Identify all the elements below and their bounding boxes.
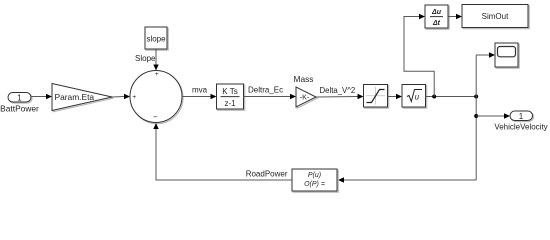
wire gain Mass to saturation, node Delta_V^2 (316, 94, 364, 99)
wire slope to sum top (153, 50, 158, 71)
wire sqrt to trunk (426, 96, 477, 98)
svg-text:-K-: -K- (300, 93, 310, 102)
svg-text:Δt: Δt (432, 20, 441, 27)
polynomial block P(u) (292, 169, 338, 192)
wire polynomial to sum bottom (153, 123, 292, 180)
wire trunk to scope (476, 52, 495, 57)
wire branch up to derivative (404, 14, 434, 97)
to-workspace SimOut (462, 5, 529, 29)
svg-text:u: u (415, 93, 420, 102)
svg-text:VehicleVelocity: VehicleVelocity (494, 123, 547, 132)
wire integrator to gain Mass, node Deltra_Ec (244, 94, 297, 99)
junction dot B (trunk / main wire) (474, 95, 478, 99)
svg-text:P(u): P(u) (308, 172, 321, 179)
svg-text:1: 1 (519, 112, 524, 121)
wire trunk vertical (475, 55, 477, 180)
svg-text:Δu: Δu (431, 9, 442, 16)
svg-text:+: + (132, 94, 136, 101)
discrete integrator K Ts / z-1 (217, 84, 245, 110)
sqrt block (402, 85, 427, 109)
junction dot C (outport branch) (474, 114, 478, 118)
svg-text:−: − (153, 113, 158, 122)
gain Mass -K- (296, 87, 317, 108)
wire trunk to outport (476, 113, 510, 118)
junction dot A (sqrt output branch) (432, 95, 436, 99)
svg-text:mva: mva (192, 86, 208, 95)
svg-text:Mass: Mass (293, 74, 313, 84)
wire derivative to SimOut (449, 14, 463, 19)
svg-text:SimOut: SimOut (482, 12, 509, 21)
wire saturation to sqrt (388, 94, 403, 99)
svg-text:+: + (155, 71, 159, 78)
svg-text:1: 1 (17, 93, 22, 102)
svg-text:Param.Eta: Param.Eta (55, 92, 95, 102)
svg-text:K Ts: K Ts (222, 87, 237, 96)
svg-text:Delta_V^2: Delta_V^2 (320, 86, 356, 95)
sum junction S1 (130, 71, 183, 124)
outport 1 VehicleVelocity (510, 111, 534, 122)
svg-text:Deltra_Ec: Deltra_Ec (248, 86, 283, 95)
constant slope (145, 27, 168, 50)
svg-text:z-1: z-1 (224, 99, 236, 108)
svg-text:O(P) =: O(P) = (304, 181, 325, 188)
wire gain to sum (112, 94, 130, 99)
svg-text:Slope: Slope (135, 54, 156, 63)
gain Param.Eta (52, 84, 113, 112)
wire trunk to polynomial (feedback) (338, 177, 476, 182)
svg-text:BattPower: BattPower (0, 104, 39, 114)
wire sum to integrator, node mva (182, 94, 217, 99)
scope block (495, 43, 519, 68)
svg-text:RoadPower: RoadPower (246, 170, 288, 179)
derivative block du/dt (425, 5, 449, 29)
inport 1 BattPower (8, 93, 32, 104)
wire inport to gain (32, 94, 53, 99)
saturation block (364, 85, 389, 109)
svg-text:slope: slope (146, 35, 166, 44)
